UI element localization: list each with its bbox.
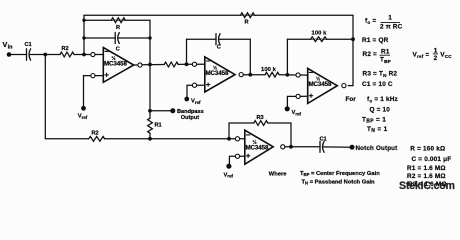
svg-text:TBP = Center Frequency Gain: TBP = Center Frequency Gain: [300, 171, 380, 177]
resistor 100k (U2 to U3): [265, 72, 279, 77]
capacitor C (U1 feedback): [115, 33, 119, 44]
svg-text:100 k: 100 k: [312, 31, 328, 37]
svg-text:Q = 10: Q = 10: [370, 107, 391, 114]
node Notch Output terminal: [350, 145, 355, 150]
svg-text:C1: C1: [320, 137, 327, 143]
svg-text:Vref: Vref: [224, 172, 234, 178]
svg-text:fo =: fo =: [365, 17, 376, 24]
svg-text:C1 = 10 C: C1 = 10 C: [362, 81, 393, 88]
svg-text:R: R: [245, 19, 249, 25]
op-amp U3 MC3458: [296, 68, 346, 103]
formula fo = 1/(2 pi RC): [365, 14, 403, 30]
wire 100k to U3 inverting input: [279, 74, 296, 76]
node U4 inverting input junction: [227, 137, 231, 141]
power Vref (U4 bias): [226, 164, 231, 169]
wire U1 R-feedback upper branch: [84, 20, 150, 38]
resistor R1 (vertical): [148, 118, 153, 133]
wire to U2 inverting input: [178, 63, 192, 65]
wire U2 C-feedback right vertical to U2 output: [249, 39, 251, 74]
wire Vin to C1: [9, 54, 27, 56]
resistor 100k (U3 feedback): [311, 37, 327, 42]
svg-text:1: 1: [388, 14, 392, 21]
wire C1 to notch terminal: [323, 146, 352, 148]
node U2 inverting input: [185, 62, 189, 66]
svg-text:StekIC.com: StekIC.com: [399, 180, 455, 192]
svg-text:C1: C1: [25, 42, 32, 48]
svg-text:2: 2: [434, 55, 438, 62]
svg-text:C = 0.001 μF: C = 0.001 μF: [412, 156, 452, 163]
op-amp U1 MC3458: [91, 48, 142, 83]
node R1 / bottom bus junction: [148, 137, 152, 141]
wire top loop from node B to U3 output: [84, 14, 353, 16]
svg-text:R2: R2: [62, 46, 69, 52]
formula Vref = 1/2 VCC: [413, 47, 453, 62]
wire input-node vertical down to bottom bus: [45, 55, 88, 139]
op-amp U2 MC3458: [192, 57, 243, 92]
svg-text:Vref: Vref: [78, 114, 88, 120]
node U2 output junction: [248, 73, 252, 77]
svg-text:fo = 1 kHz: fo = 1 kHz: [367, 96, 398, 103]
wire R1 to bottom bus: [149, 133, 151, 139]
wire bandpass tap from U1 output vertical: [149, 65, 151, 119]
wire U3 output right vertical: [348, 15, 353, 85]
junction at node B vertical / R branch: [82, 19, 85, 22]
resistor R (top loop): [241, 13, 255, 18]
svg-text:R2 =: R2 =: [363, 51, 378, 58]
svg-text:R1 = QR: R1 = QR: [362, 37, 389, 44]
wire U3 100k-feedback left vertical: [286, 39, 288, 75]
junction C branch right: [148, 36, 151, 39]
wire bottom bus R2 to U4: [104, 138, 235, 140]
svg-text:Notch Output: Notch Output: [356, 145, 398, 152]
svg-text:Vref: Vref: [191, 99, 201, 105]
node U4 output junction: [289, 145, 293, 149]
svg-text:MC3458: MC3458: [309, 81, 332, 88]
svg-text:MC3458: MC3458: [206, 70, 229, 77]
wire R3 right vertical to U4 output: [290, 123, 292, 147]
power Vref (U1 bias): [81, 106, 86, 111]
junction C branch left: [82, 36, 85, 39]
node U3 inverting input: [286, 73, 290, 77]
capacitor C1 (notch output): [320, 141, 324, 152]
wire U4 + input to Vref: [229, 156, 235, 166]
svg-text:For: For: [346, 96, 357, 103]
wire U2 C-feedback left vertical: [186, 39, 188, 64]
node B (U1 inverting input node): [82, 53, 86, 57]
wire R2 to op-amp U1 inverting input: [74, 54, 91, 56]
svg-text:TN = Passband Notch Gain: TN = Passband Notch Gain: [302, 179, 376, 185]
node A (input summing junction): [43, 53, 47, 57]
svg-text:R3: R3: [257, 115, 264, 121]
svg-text:R: R: [116, 25, 120, 31]
capacitor C1 (input): [27, 49, 31, 60]
svg-text:MC3458: MC3458: [246, 145, 269, 152]
wire feedback right vertical to U1 output: [149, 38, 151, 65]
wire U4 R3-feedback left vertical: [228, 123, 230, 139]
node Bandpass Output terminal: [170, 108, 175, 113]
wire vertical feedback bus at x=84: [83, 15, 85, 54]
svg-text:R1: R1: [381, 48, 390, 55]
svg-text:C: C: [217, 45, 221, 51]
node Vin input terminal: [7, 52, 12, 57]
power Vref (U3 bias): [285, 106, 290, 111]
svg-text:R1 = 1.6 MΩ: R1 = 1.6 MΩ: [407, 165, 446, 172]
node top loop / U3 feedback junction: [351, 37, 355, 41]
wire U1 + input to Vref: [84, 76, 91, 109]
wire tap to bandpass terminal: [150, 110, 173, 112]
wire C1 to node A: [29, 54, 60, 56]
formula R2 = R1/TBP: [363, 48, 391, 64]
op-amp U4 MC3458: [235, 130, 285, 164]
wire U4 R3-feedback top: [229, 122, 254, 124]
resistor R2 (bottom, horizontal): [89, 136, 105, 141]
resistor (U1 out to U2 in, unlabeled): [164, 62, 178, 67]
svg-text:R3 = TN R2: R3 = TN R2: [363, 71, 398, 79]
resistor R (U1 feedback): [111, 18, 125, 23]
wire U1 C-feedback branch: [84, 37, 115, 39]
capacitor C (U2 feedback): [216, 34, 220, 45]
wire U3 100k-feedback top: [287, 38, 353, 40]
resistor R2 (input, horizontal): [60, 52, 74, 57]
svg-text:Bandpass: Bandpass: [177, 109, 204, 115]
svg-text:Where: Where: [269, 172, 287, 178]
svg-text:MC3458: MC3458: [104, 61, 127, 68]
node bandpass tap: [148, 109, 152, 113]
svg-text:2 π RC: 2 π RC: [380, 24, 403, 31]
svg-text:R1: R1: [155, 123, 162, 129]
svg-text:Output: Output: [181, 115, 199, 121]
svg-text:R2: R2: [92, 130, 99, 136]
svg-text:C: C: [116, 47, 120, 53]
power Vref (U2 bias): [184, 97, 189, 102]
resistor R3 (U4 feedback): [254, 121, 268, 126]
wire U2 C-feedback top: [187, 38, 217, 40]
wire U3 + input to Vref: [287, 96, 296, 108]
svg-text:1: 1: [434, 47, 438, 54]
svg-text:Vref: Vref: [292, 110, 302, 116]
node U1 output junction: [148, 63, 152, 67]
wire U1 output to U2: [134, 64, 138, 66]
wire U2 output to 100k: [243, 74, 265, 76]
wire U4 output to C1: [285, 146, 320, 148]
svg-text:R = 160 kΩ: R = 160 kΩ: [410, 146, 445, 153]
svg-text:100 k: 100 k: [261, 67, 277, 73]
wire U2 + input to Vref: [187, 85, 192, 99]
